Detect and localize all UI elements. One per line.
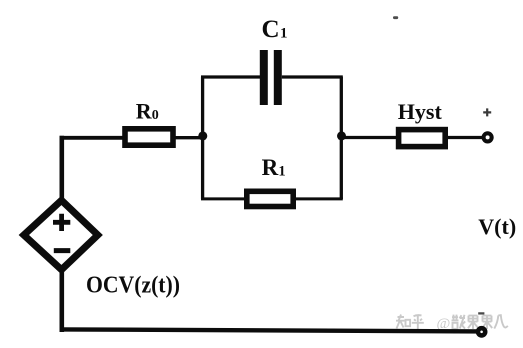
label R0: [136, 98, 159, 123]
svg-text:R: R: [136, 98, 153, 123]
capacitor C1 right plate: [274, 50, 282, 105]
svg-text:1: 1: [278, 164, 285, 180]
dependent voltage source OCV diamond: [24, 200, 98, 269]
wire: right vertical of parallel branch: [340, 77, 343, 199]
label - at negative terminal: [478, 312, 484, 314]
capacitor C1 left plate: [260, 50, 268, 105]
svg-text:R: R: [262, 155, 279, 180]
wire: left vertical from main rail down to source top: [59, 136, 64, 198]
label V(t): [478, 214, 516, 239]
positive terminal (open circle): [484, 133, 492, 141]
wire: bottom branch right of R1: [294, 197, 343, 200]
label OCV(z(t)): [86, 273, 180, 299]
wire: top branch left of C1: [201, 75, 261, 78]
label Hyst: [398, 99, 443, 124]
wire: bottom branch left of R1: [201, 197, 247, 200]
watermark 知乎 @散果果儿: [396, 315, 508, 333]
wire: R0 to node A: [174, 136, 204, 139]
wire: node B to Hyst: [341, 136, 400, 139]
svg-text:V(t): V(t): [478, 214, 516, 239]
wire: Hyst to positive terminal: [445, 136, 483, 139]
wire: left vertical of parallel branch: [201, 77, 204, 199]
svg-text:OCV(z(t)): OCV(z(t)): [86, 273, 180, 299]
resistor R0: [125, 129, 173, 145]
svg-text:1: 1: [280, 26, 288, 42]
wire: source bottom vertical to bottom rail: [59, 271, 64, 332]
wire: main horizontal segment to R0: [60, 136, 126, 140]
label + inside source: [53, 214, 70, 231]
svg-text:C: C: [262, 16, 280, 43]
wire: top branch right of C1: [282, 75, 343, 78]
svg-text:0: 0: [152, 108, 159, 123]
label C1: [262, 16, 288, 43]
node B junction dot: [337, 131, 346, 140]
resistor R1: [247, 191, 293, 206]
svg-text:Hyst: Hyst: [398, 99, 443, 124]
label R1: [262, 155, 286, 180]
label - inside source: [54, 248, 71, 253]
node A junction dot: [198, 131, 207, 140]
wire: bottom rail: [60, 329, 483, 331]
stray mark near top: [393, 16, 398, 19]
negative terminal (thick ring): [478, 328, 485, 335]
label + at positive terminal: [483, 108, 491, 116]
hysteresis element Hyst: [399, 130, 446, 147]
